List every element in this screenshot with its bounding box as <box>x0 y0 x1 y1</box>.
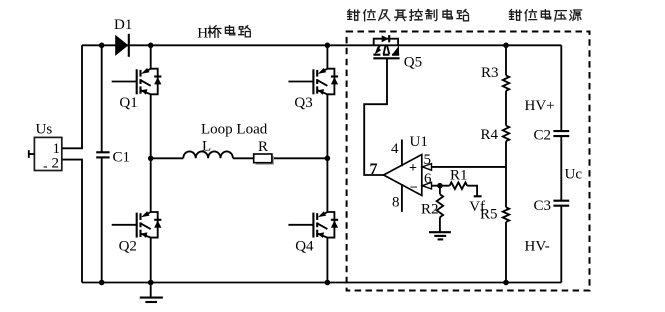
wire Q3 drain <box>326 45 328 68</box>
ground at R2 <box>429 231 451 233</box>
wire C1 branch upper <box>101 45 103 152</box>
svg-text:–: – <box>410 178 418 193</box>
svg-text:Loop Load: Loop Load <box>201 122 268 138</box>
wire R1 to Vf terminal <box>467 186 477 197</box>
svg-text:Q5: Q5 <box>404 54 422 70</box>
junction Q4 source <box>325 280 331 286</box>
capacitor C3 <box>553 200 569 202</box>
wire bottom rail <box>82 282 561 284</box>
wire Q4 drain <box>326 158 328 212</box>
svg-text:6: 6 <box>424 171 432 187</box>
svg-text:5: 5 <box>424 152 432 168</box>
junction pin6 R1 R2 <box>437 183 443 189</box>
junction node A <box>148 156 154 162</box>
svg-text:C2: C2 <box>534 128 552 144</box>
pin 5 arrowhead <box>422 164 431 171</box>
wire Q4 source <box>326 238 328 283</box>
svg-text:2: 2 <box>52 156 60 172</box>
wire resistor R to node B <box>272 157 328 159</box>
wire Q1 source to node A <box>150 94 152 158</box>
svg-text:R5: R5 <box>480 207 498 223</box>
wire R4 to R5 <box>505 141 507 207</box>
wire op-amp pin 4 power stub <box>401 140 403 167</box>
svg-text:Q1: Q1 <box>119 95 137 111</box>
resistor R1 <box>450 182 468 189</box>
junction Q3 drain <box>325 43 331 49</box>
svg-text:R2: R2 <box>421 202 439 218</box>
svg-text:R4: R4 <box>481 127 499 143</box>
svg-text:+: + <box>409 161 417 176</box>
svg-text:HV-: HV- <box>525 238 550 254</box>
wire node A to inductor L <box>151 157 184 159</box>
svg-text:R3: R3 <box>481 65 499 81</box>
wire R5 to bottom rail <box>505 222 507 283</box>
junction C1 bottom <box>99 280 105 286</box>
junction C1 top <box>99 43 105 49</box>
svg-text:Q3: Q3 <box>294 95 312 111</box>
junction node B <box>325 156 331 162</box>
transistor Q2 <box>112 211 162 238</box>
svg-text:C3: C3 <box>534 198 552 214</box>
svg-text:L: L <box>202 139 211 155</box>
wire Us pin1 to top rail <box>62 45 82 148</box>
op-amp U1 <box>384 155 422 196</box>
resistor R2 <box>437 194 443 217</box>
wire C1 branch lower <box>101 158 103 283</box>
wire op-amp output to Q5 gate <box>364 59 387 176</box>
capacitor C1 <box>96 151 109 153</box>
wire pin6 input to R1 <box>422 185 450 187</box>
transistor Q3 <box>288 68 338 95</box>
wire pin5 input from R4-R5 divider <box>422 166 506 168</box>
Vf terminal <box>474 195 482 197</box>
svg-text:-: - <box>43 159 48 174</box>
wire R3 column top <box>505 45 507 75</box>
svg-text:R1: R1 <box>450 168 468 184</box>
wire C3 to bottom rail <box>560 206 562 283</box>
svg-text:U1: U1 <box>410 134 428 150</box>
svg-text:4: 4 <box>391 141 399 157</box>
transistor Q5 <box>373 35 399 58</box>
wire top rail HV+ bus <box>82 44 561 46</box>
source box Us <box>34 137 61 170</box>
dashed box clamp circuit boundary <box>347 32 590 291</box>
svg-text:Q4: Q4 <box>295 238 314 254</box>
inductor L <box>183 151 233 158</box>
svg-text:Q2: Q2 <box>119 238 137 254</box>
wire R2 bottom lead to ground <box>439 217 441 232</box>
svg-text:8: 8 <box>392 195 400 211</box>
wire R2 top lead <box>439 186 441 195</box>
wire C2 column top <box>560 45 562 131</box>
transistor Q4 <box>288 211 338 238</box>
wire Q1 drain <box>150 45 152 68</box>
junction R5 bottom <box>503 280 509 286</box>
resistor R5 <box>503 207 509 222</box>
ground at Q2 source <box>150 283 152 298</box>
junction Q2 source <box>148 280 154 286</box>
wire Q3 source to node B <box>326 94 328 158</box>
svg-text:Uc: Uc <box>565 166 583 182</box>
wire Q2 source <box>150 238 152 283</box>
wire Us pin2 to bottom rail <box>62 160 82 283</box>
wire Uc node between C2 and C3 <box>560 136 562 200</box>
svg-text:7: 7 <box>370 161 378 178</box>
diode D1 <box>115 35 128 56</box>
svg-text:D1: D1 <box>114 17 132 33</box>
label clamp voltage source heading <box>510 10 522 21</box>
wire Q2 drain <box>150 158 152 212</box>
svg-text:C1: C1 <box>113 150 131 166</box>
junction Q1 drain <box>148 43 154 49</box>
junction R3 top <box>503 43 509 49</box>
pin 6 arrowhead <box>422 182 431 189</box>
wire op-amp pin 8 power stub <box>401 184 403 212</box>
svg-text:R: R <box>258 139 268 155</box>
transistor Q1 <box>112 68 162 95</box>
svg-text:Us: Us <box>36 122 53 138</box>
svg-text:H: H <box>197 25 208 41</box>
label clamp and its control circuit heading <box>348 10 360 21</box>
resistor R load box <box>256 156 274 165</box>
wire R3 to R4 <box>505 91 507 126</box>
resistor R4 <box>503 126 509 142</box>
wire inductor L to resistor R <box>233 157 254 159</box>
capacitor C2 <box>553 130 569 132</box>
resistor R3 <box>503 75 509 90</box>
svg-text:HV+: HV+ <box>525 98 555 114</box>
